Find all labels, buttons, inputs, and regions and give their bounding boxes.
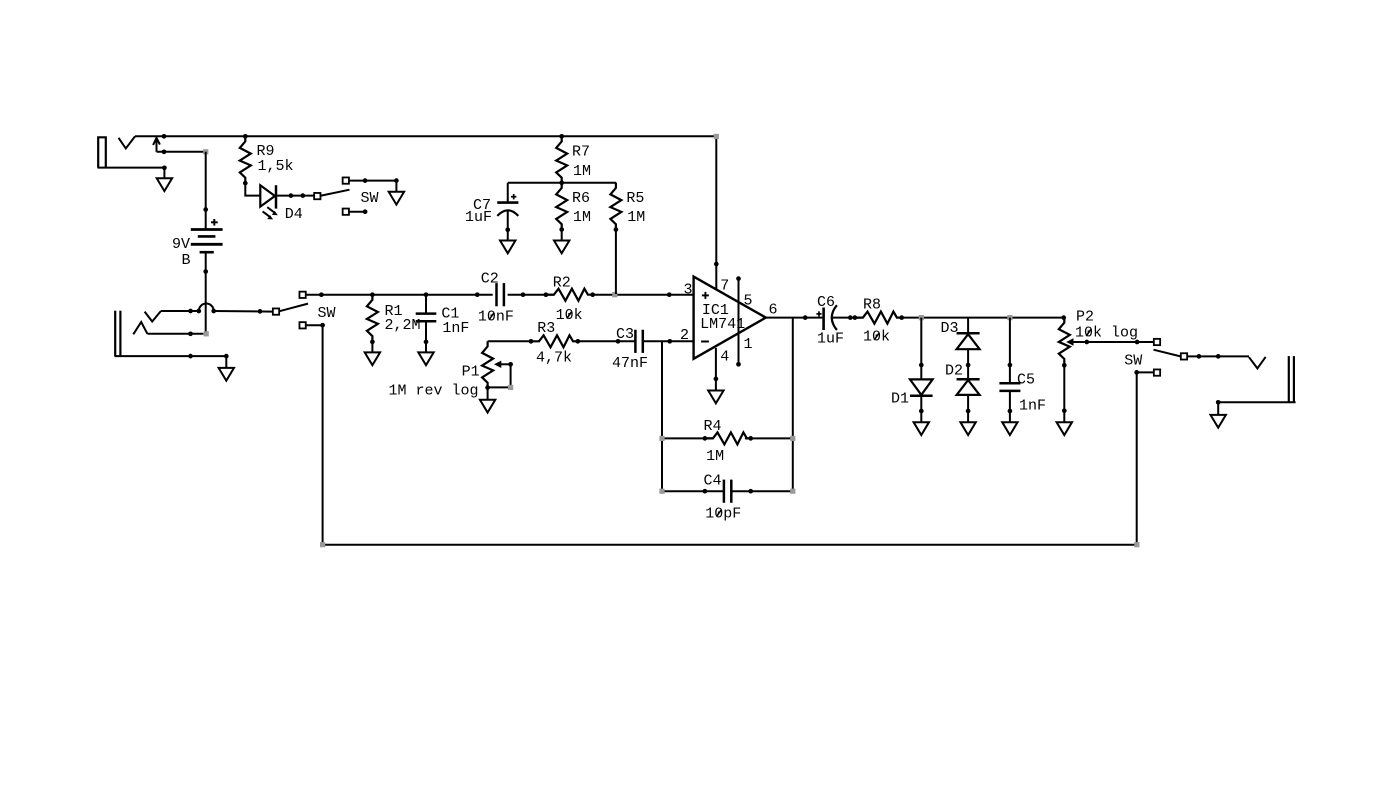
svg-text:R2: R2 [553, 274, 571, 291]
label pin 6 [769, 302, 778, 319]
potentiometer P2 [1059, 318, 1070, 365]
switch SW (input) lower contact [299, 322, 305, 328]
junction dot tip line a [188, 309, 193, 314]
ground (R1) [365, 352, 380, 365]
wire D3 to D2 [967, 349, 969, 379]
label R7 [572, 143, 590, 160]
svg-text:7: 7 [720, 277, 729, 294]
wire bypass down [322, 325, 324, 545]
label R6 [572, 190, 590, 207]
junction dot sleeve line [188, 354, 193, 359]
junction dot D1 top [919, 363, 924, 368]
junction dot R7 bottom [559, 180, 564, 185]
label R8 [863, 297, 881, 314]
svg-text:2,2M: 2,2M [385, 317, 421, 334]
label 1uF (C6) [817, 331, 844, 348]
ground (top jack) [157, 178, 172, 191]
svg-text:4: 4 [720, 348, 729, 365]
junction dot LED wire a [289, 193, 294, 198]
node battery tap corner (gray) [203, 149, 208, 154]
junction dot pin7 wire [714, 262, 719, 267]
capacitor C5 [999, 383, 1020, 391]
resistor R9 [240, 136, 251, 183]
label 1uF (C7) [465, 209, 492, 226]
svg-text:R7: R7 [572, 143, 590, 160]
svg-text:C4: C4 [704, 472, 722, 489]
junction dot signal R1 [370, 292, 375, 297]
wire C5 branch [1009, 318, 1011, 384]
svg-text:D4: D4 [285, 206, 303, 223]
svg-text:R8: R8 [863, 297, 881, 314]
junction dot C3 left [616, 339, 621, 344]
ground (C1) [418, 352, 433, 365]
wire D2 to ground [967, 395, 969, 422]
label pin 7 [720, 277, 729, 294]
node C5 branch (gray) [1007, 315, 1012, 320]
svg-text:3: 3 [684, 282, 693, 299]
switch SW (input) lever [279, 304, 308, 312]
label C4 [704, 472, 722, 489]
ground (D1) [914, 422, 929, 435]
junction dot tip line b [196, 309, 201, 314]
label 1M (R6) [573, 209, 591, 226]
junction dot pin5 top [736, 276, 741, 281]
capacitor C6 [824, 305, 837, 330]
label 10pF [705, 505, 741, 522]
ground (P2) [1057, 422, 1072, 435]
junction dot LED switch wire [363, 178, 368, 183]
node rail corner (gray) [714, 134, 719, 139]
wire R9 to LED [245, 183, 260, 196]
label R5 [626, 190, 644, 207]
ground (R6) [554, 241, 569, 254]
label 1nF (C1) [442, 320, 469, 337]
wire bottom bypass rail [323, 544, 1137, 546]
node bypass corner right (gray) [1134, 542, 1139, 547]
P1 wiper wire [488, 364, 511, 387]
diode D1 (pointing down) [910, 379, 933, 395]
svg-text:10pF: 10pF [705, 505, 741, 522]
ground (D2) [960, 422, 975, 435]
label D4 [285, 206, 303, 223]
node P1 wiper bottom (gray) [508, 385, 513, 390]
junction dot C4 right [748, 489, 753, 494]
junction dot LED switch corner [394, 178, 399, 183]
junction dot R2 left [544, 292, 549, 297]
label pin 5 [744, 292, 753, 309]
label R4 [704, 418, 722, 435]
jack switch arrow [153, 138, 160, 152]
junction dot C5 bottom [1008, 409, 1013, 414]
input jack J2 tip contact [145, 311, 161, 322]
wire D3 branch [967, 318, 969, 334]
wire opamp output [766, 317, 823, 319]
resistor R3 [531, 335, 578, 347]
junction dot signal C1 [424, 292, 429, 297]
wire output to feedback vertical [792, 318, 794, 492]
switch SW (output) right contact [1181, 353, 1187, 359]
label 1M (R7) [573, 163, 591, 180]
junction dot R2 right [590, 292, 595, 297]
wire battery negative lead [205, 252, 207, 334]
label SW (LED switch) [361, 190, 379, 207]
label 10k log [1075, 325, 1138, 342]
svg-text:B: B [182, 252, 191, 269]
wire jack sleeve line [115, 356, 227, 368]
label 10k (R8) [863, 329, 890, 346]
label 1M (R4) [706, 448, 724, 465]
wire top supply rail [135, 135, 716, 137]
svg-text:1M rev log: 1M rev log [389, 383, 479, 400]
junction dot wiper a [1084, 340, 1089, 345]
junction dot tip line d [258, 309, 263, 314]
junction dot R8 right [899, 315, 904, 320]
junction dot signal b [475, 292, 480, 297]
label R2 [553, 274, 571, 291]
wire jack sleeve to ground [98, 168, 165, 179]
battery B plate 2 (short) [198, 235, 216, 238]
node D1 branch (gray) [919, 315, 924, 320]
label 1,5k [258, 158, 294, 175]
junction dot D1 bottom [919, 409, 924, 414]
label C6 [817, 294, 835, 311]
junction dot C6 right [848, 315, 853, 320]
node bypass corner left (gray) [320, 542, 325, 547]
ground (C5) [1002, 422, 1017, 435]
wire feedback left vertical [661, 341, 663, 491]
wire R5 to pin3 net [615, 230, 617, 295]
P1 wiper arrow [494, 361, 511, 368]
node feedback corner BL (gray) [659, 489, 664, 494]
label 9V [172, 236, 190, 253]
svg-text:D2: D2 [945, 363, 963, 380]
wire C2 to R2 [508, 294, 554, 296]
wire battery positive lead [205, 152, 207, 230]
svg-text:1M: 1M [627, 209, 645, 226]
svg-text:10nF: 10nF [478, 308, 514, 325]
input jack J1 (DC/top jack) bracket [98, 137, 106, 167]
svg-text:4,7k: 4,7k [536, 350, 572, 367]
junction dot R4 right [748, 436, 753, 441]
label 10nF (C2) [478, 308, 514, 325]
wire D1 to ground [920, 396, 922, 422]
wire switch to output jack [1187, 355, 1249, 357]
svg-text:1M: 1M [706, 448, 724, 465]
wire LED switch to ground [349, 181, 396, 192]
capacitor C7 plus sign [511, 194, 516, 199]
junction dot out sleeve [1216, 400, 1221, 405]
label IC1 [702, 302, 729, 319]
label LM741 [700, 316, 745, 333]
wire LED to switch [276, 195, 314, 197]
label C5 [1017, 372, 1035, 389]
capacitor C6 plus sign [816, 311, 821, 316]
switch SW (LED) common contact [314, 193, 320, 199]
switch SW (LED) lower contact [343, 209, 349, 215]
wire D1 branch [920, 318, 922, 380]
label D3 [941, 320, 959, 337]
svg-text:47nF: 47nF [612, 355, 648, 372]
junction dot R3 left [529, 339, 534, 344]
junction dot R9 bottom [243, 181, 248, 186]
junction dot P1 bottom [485, 385, 490, 390]
svg-text:2: 2 [680, 327, 689, 344]
LED D4 cathode bar [275, 185, 278, 208]
junction dot P1 wiper corner [508, 362, 513, 367]
wire C4 row [662, 490, 793, 492]
svg-text:D3: D3 [941, 320, 959, 337]
svg-text:SW: SW [318, 305, 336, 322]
junction dot P2 bottom [1062, 363, 1067, 368]
label 2,2M [385, 317, 421, 334]
ground (C7) [500, 241, 515, 254]
junction dot battery tap [162, 149, 167, 154]
svg-text:C2: C2 [481, 270, 499, 287]
svg-text:R5: R5 [626, 190, 644, 207]
label C7 [473, 197, 491, 214]
wire R6 to ground [561, 230, 563, 241]
wire C6 to R8 [833, 317, 862, 319]
junction dot out jack a [1197, 354, 1202, 359]
svg-text:10k log: 10k log [1075, 325, 1138, 342]
resistor R2 [546, 289, 593, 301]
node feedback corner TR (gray) [790, 436, 795, 441]
resistor R7 [556, 136, 567, 183]
op-amp IC1 triangle [694, 277, 766, 359]
ground (P1) [480, 400, 495, 413]
output jack tip contact [1249, 357, 1266, 369]
svg-text:D1: D1 [891, 391, 909, 408]
junction dot output a [803, 315, 808, 320]
switch SW (output) lever [1154, 350, 1182, 357]
svg-text:6: 6 [769, 302, 778, 319]
label R1 [385, 303, 403, 320]
junction dot R6 bottom [559, 227, 564, 232]
junction dot jack sleeve [162, 165, 167, 170]
battery B 9V plus sign [211, 219, 218, 226]
svg-text:R4: R4 [704, 418, 722, 435]
switch SW (input) upper contact [299, 292, 305, 298]
svg-text:1nF: 1nF [1019, 398, 1046, 415]
label pin 4 [720, 348, 729, 365]
wire battery tap [157, 151, 206, 153]
wire tip line to switch [214, 310, 273, 313]
wire supply rail to pin7 [715, 136, 717, 289]
capacitor C2 [497, 283, 504, 306]
wire R1 to ground [371, 342, 373, 353]
ground (LED switch) [389, 192, 404, 205]
wire output jack sleeve [1218, 402, 1295, 415]
output jack bracket [1289, 356, 1294, 402]
wire P1 to R3 [488, 340, 531, 342]
junction dot ring line [188, 331, 193, 336]
junction dot out jack b [1216, 354, 1221, 359]
junction dot tip line c [211, 309, 216, 314]
capacitor C3 [635, 330, 642, 353]
switch SW (LED) lever [320, 190, 350, 196]
label pin 2 [680, 327, 689, 344]
junction dot pin1 bottom [736, 362, 741, 367]
wire bias rail [508, 182, 616, 184]
label C3 [616, 326, 634, 343]
wire C7 to ground [507, 230, 509, 241]
junction dot C4 left [703, 489, 708, 494]
junction dot battery negative [203, 269, 208, 274]
resistor R1 [367, 295, 378, 342]
label P1 [462, 363, 480, 380]
junction dot battery positive [203, 207, 208, 212]
junction dot before P2 [1061, 315, 1066, 320]
input jack J1 tip contact [119, 136, 136, 148]
junction dot R3 right [575, 339, 580, 344]
wire R2 to opamp pin3 [593, 294, 694, 296]
svg-text:1,5k: 1,5k [258, 158, 294, 175]
label D1 [891, 391, 909, 408]
LED D4 arrow 1 [267, 207, 278, 215]
input jack J2 bracket [115, 311, 120, 356]
battery B plate 4 (short) [200, 251, 214, 254]
svg-text:R3: R3 [537, 320, 555, 337]
label 4,7k [536, 350, 572, 367]
capacitor C4 [724, 480, 731, 503]
P2 wiper arrow [1066, 338, 1153, 345]
wire LED switch lower stub [349, 211, 365, 213]
wire C3 to opamp pin2 [643, 340, 694, 342]
junction dot sleeve corner [224, 354, 229, 359]
junction dot C7 bottom [505, 227, 510, 232]
junction dot R4 left [703, 436, 708, 441]
label R9 [257, 143, 275, 160]
junction dot R5 bottom [614, 227, 619, 232]
label R3 [537, 320, 555, 337]
wire pin4 to ground [715, 348, 717, 391]
node battery/ring junction (gray) [204, 331, 209, 336]
wire R3 to C3 [578, 340, 636, 342]
label 10k (R2) [556, 307, 583, 324]
wire R4 row [662, 437, 793, 439]
label SW (output switch) [1124, 352, 1142, 369]
junction dot D2 bottom [966, 409, 971, 414]
junction dot R1 bottom [370, 340, 375, 345]
node feedback corner TL (gray) [659, 436, 664, 441]
label SW (input switch) [318, 305, 336, 322]
junction dot pin3 [667, 292, 672, 297]
wire P1 to ground [487, 388, 489, 400]
svg-text:1M: 1M [573, 163, 591, 180]
junction dot wiper b [1135, 340, 1140, 345]
switch SW (output) top contact [1154, 339, 1160, 345]
wire jack tip line [161, 310, 199, 312]
svg-text:1: 1 [744, 336, 753, 353]
label D2 [945, 363, 963, 380]
junction dot signal a [319, 292, 324, 297]
ground (op-amp pin4) [708, 391, 723, 404]
switch SW (LED) upper contact [343, 177, 349, 183]
svg-text:SW: SW [361, 190, 379, 207]
diode D2 (pointing up) [957, 379, 980, 395]
wire output bypass [1137, 372, 1154, 544]
wire hop over battery wire [199, 304, 214, 311]
junction dot D2 top [966, 363, 971, 368]
label pin 3 [684, 282, 693, 299]
label 1nF (C5) [1019, 398, 1046, 415]
op-amp minus input marker [701, 341, 709, 343]
junction dot R9 top [243, 134, 248, 139]
label 47nF [612, 355, 648, 372]
junction dot rail at jack [162, 134, 167, 139]
junction dot pin2 [667, 339, 672, 344]
junction dot pin4 wire [714, 377, 719, 382]
potentiometer P1 [482, 341, 493, 388]
svg-text:C5: C5 [1017, 372, 1035, 389]
label pin 1 [744, 336, 753, 353]
op-amp plus input marker [702, 292, 709, 299]
op-amp pins 5/1 offset line [738, 279, 740, 365]
switch SW (output) lower contact [1154, 369, 1160, 375]
wire ring line [147, 333, 203, 335]
label 1M (R5) [627, 209, 645, 226]
svg-text:1uF: 1uF [465, 209, 492, 226]
svg-text:C6: C6 [817, 294, 835, 311]
svg-text:R6: R6 [572, 190, 590, 207]
input jack J2 ring contact [133, 322, 147, 334]
switch SW (input) common contact [273, 308, 279, 314]
junction dot bypass corner [1134, 370, 1139, 375]
svg-text:1uF: 1uF [817, 331, 844, 348]
wire P2 to ground [1063, 364, 1065, 422]
junction dot LED wire b [300, 193, 305, 198]
resistor R4 [705, 432, 752, 444]
wire bypass lower contact [306, 323, 325, 328]
LED D4 arrow 2 [263, 211, 274, 219]
resistor R8 [855, 312, 902, 324]
LED D4 triangle [260, 185, 275, 206]
capacitor C7 [497, 183, 518, 230]
battery B plate 1 (long) [191, 228, 223, 231]
wire C5 to ground [1009, 391, 1011, 422]
svg-text:C3: C3 [616, 326, 634, 343]
junction dot C1 bottom [424, 340, 429, 345]
junction dot C2 right [521, 292, 526, 297]
resistor R6 [556, 183, 567, 230]
svg-text:1M: 1M [573, 209, 591, 226]
diode D3 (pointing up) [957, 333, 980, 349]
ground (mid jack) [219, 368, 234, 381]
svg-text:5: 5 [744, 292, 753, 309]
svg-text:1nF: 1nF [442, 320, 469, 337]
svg-text:SW: SW [1124, 352, 1142, 369]
label P2 [1076, 309, 1094, 326]
svg-text:P2: P2 [1076, 309, 1094, 326]
label C2 [481, 270, 499, 287]
junction dot R8 left [853, 315, 858, 320]
capacitor C1 [416, 295, 437, 353]
resistor R5 [610, 183, 621, 230]
junction dot C5 top [1008, 363, 1013, 368]
ground (output jack) [1211, 415, 1226, 428]
svg-text:9V: 9V [172, 236, 190, 253]
wire signal line (pin3 net) [306, 294, 493, 296]
junction dot P2 gnd wire [1062, 408, 1067, 413]
junction dot R7 top [559, 134, 564, 139]
svg-text:P1: P1 [462, 363, 480, 380]
node R5 junction (gray) [612, 292, 617, 297]
battery B plate 3 (long) [191, 243, 223, 246]
wire R8 to P2 [902, 317, 1065, 319]
label 1M rev log [389, 383, 479, 400]
node feedback corner BR (gray) [790, 489, 795, 494]
label B [182, 252, 191, 269]
